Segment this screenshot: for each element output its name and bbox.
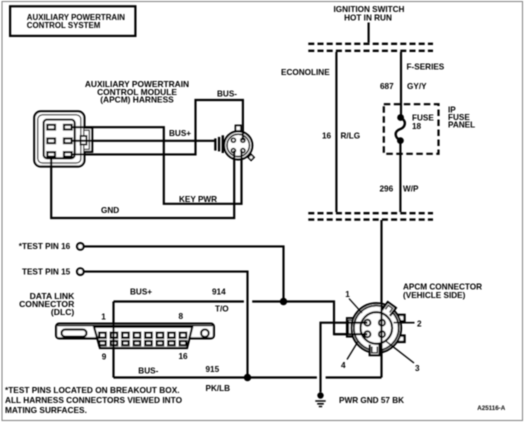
- svg-text:PANEL: PANEL: [448, 121, 475, 130]
- svg-text:CONTROL SYSTEM: CONTROL SYSTEM: [27, 21, 101, 30]
- svg-text:18: 18: [412, 122, 422, 131]
- connector DLC 16-pin: [56, 324, 214, 348]
- svg-text:KEY PWR: KEY PWR: [179, 195, 217, 204]
- svg-text:2: 2: [417, 319, 422, 328]
- svg-text:687: 687: [380, 82, 394, 91]
- svg-text:PWR GND 57 BK: PWR GND 57 BK: [339, 396, 404, 405]
- wire ignition stem: [368, 23, 370, 43]
- pin slots: [47, 125, 55, 130]
- svg-text:BUS+: BUS+: [169, 129, 191, 138]
- svg-text:4: 4: [341, 361, 346, 370]
- test pin 15 terminal: [77, 268, 84, 275]
- svg-text:T/O: T/O: [215, 304, 229, 313]
- svg-text:8: 8: [179, 312, 184, 321]
- wire below fuse: [399, 141, 401, 212]
- svg-text:(APCM) HARNESS: (APCM) HARNESS: [100, 95, 174, 105]
- junction dot test15/915: [244, 374, 251, 381]
- svg-text:ECONOLINE: ECONOLINE: [281, 68, 330, 77]
- bus bottom dashed: [308, 212, 433, 214]
- label APCM harness: [85, 79, 189, 105]
- svg-text:1: 1: [345, 290, 350, 299]
- label DLC: [19, 291, 75, 317]
- wire BUS+ harness: [71, 140, 215, 142]
- svg-text:PK/LB: PK/LB: [206, 384, 231, 393]
- svg-text:W/P: W/P: [403, 185, 419, 194]
- svg-text:*TEST PIN 16: *TEST PIN 16: [19, 242, 71, 251]
- connector harness round 4-pin: [214, 126, 254, 161]
- svg-text:16: 16: [179, 352, 189, 361]
- bus top dashed: [308, 43, 433, 45]
- svg-text:F-SERIES: F-SERIES: [407, 63, 445, 72]
- svg-text:915: 915: [206, 365, 220, 374]
- wire KEY PWR: [71, 127, 242, 204]
- fuse F18: [396, 114, 405, 144]
- svg-text:R/LG: R/LG: [341, 132, 361, 141]
- wire test pin 15: [84, 272, 247, 378]
- svg-text:GY/Y: GY/Y: [407, 82, 427, 91]
- DLC pin slots row 1: [99, 333, 186, 338]
- note text: [5, 385, 183, 415]
- svg-text:(VEHICLE SIDE): (VEHICLE SIDE): [403, 291, 466, 300]
- wire econoline: [335, 52, 337, 212]
- svg-text:A25116-A: A25116-A: [477, 405, 505, 412]
- pin leader 4: [347, 342, 358, 360]
- ground symbol: [315, 392, 325, 406]
- svg-text:9: 9: [102, 352, 107, 361]
- svg-text:914: 914: [212, 288, 226, 297]
- svg-text:MATING SURFACES.: MATING SURFACES.: [5, 405, 87, 415]
- svg-text:TEST PIN 15: TEST PIN 15: [22, 268, 71, 277]
- pin leader 1: [349, 299, 362, 314]
- test pin 16 terminal: [77, 243, 84, 250]
- wire 914 into pin4 redraw over connector: [334, 333, 367, 335]
- svg-text:BUS+: BUS+: [130, 288, 152, 297]
- wire GND: [51, 151, 234, 218]
- svg-text:(DLC): (DLC): [51, 307, 75, 317]
- connector APCM vehicle side: [347, 302, 405, 355]
- title box: [10, 6, 135, 36]
- svg-text:3: 3: [415, 364, 420, 373]
- svg-text:ALL HARNESS CONNECTORS VIEWED: ALL HARNESS CONNECTORS VIEWED INTO: [5, 395, 183, 405]
- wire DLC BUS+ 914: [114, 302, 368, 335]
- DLC pin slots row 2: [99, 341, 186, 345]
- svg-text:*TEST PINS LOCATED ON BREAKOUT: *TEST PINS LOCATED ON BREAKOUT BOX.: [5, 385, 180, 395]
- wire DLC BUS- 915: [114, 376, 382, 378]
- wire test pin 16: [84, 246, 283, 301]
- svg-text:HOT IN RUN: HOT IN RUN: [344, 14, 392, 23]
- svg-text:16: 16: [322, 132, 332, 141]
- svg-text:296: 296: [380, 185, 394, 194]
- fuse panel box: [384, 104, 439, 154]
- svg-text:GND: GND: [101, 206, 119, 215]
- connector APCM harness 6-pin: [34, 111, 92, 166]
- svg-text:1: 1: [101, 313, 106, 322]
- pin leader 3: [386, 341, 415, 363]
- svg-text:BUS-: BUS-: [217, 89, 237, 98]
- wire f-series: [400, 52, 402, 118]
- wire power from bus to APCM: [380, 220, 382, 378]
- wire APCM pin1 to ground: [321, 323, 368, 393]
- junction dot test16/914: [280, 298, 287, 305]
- pin leader 2: [394, 322, 415, 324]
- wire DLC BUS+ vertical through connector: [112, 302, 114, 378]
- svg-text:BUS-: BUS-: [138, 367, 158, 376]
- wire BUS- harness: [71, 100, 243, 154]
